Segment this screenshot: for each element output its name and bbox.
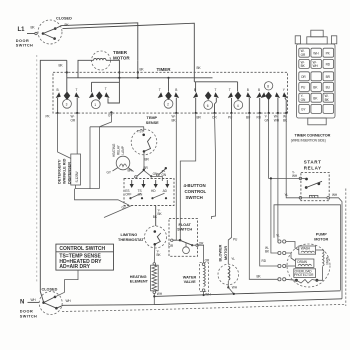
limiting thermostat bbox=[118, 226, 167, 248]
dispenser solenoid bbox=[58, 154, 81, 185]
wire Y-GN long drop to start relay bbox=[269, 113, 300, 178]
wire W-BK long drop to start relay coil bbox=[285, 113, 301, 198]
svg-text:AD=AIR DRY: AD=AIR DRY bbox=[59, 264, 90, 270]
svg-text:CONTROL SWITCH: CONTROL SWITCH bbox=[59, 246, 105, 252]
svg-text:WH: WH bbox=[313, 52, 319, 56]
svg-text:OR: OR bbox=[169, 244, 174, 248]
svg-text:WRINKLE RID: WRINKLE RID bbox=[63, 158, 67, 184]
timer connector shell bbox=[295, 30, 337, 125]
svg-text:(WIRE INSERTION SIDE): (WIRE INSERTION SIDE) bbox=[291, 139, 326, 143]
svg-text:T: T bbox=[159, 88, 161, 92]
wire PK output to dispenser bbox=[58, 113, 71, 159]
svg-text:SWITCH: SWITCH bbox=[186, 195, 203, 200]
cabinet border (dashed, left) bbox=[36, 55, 38, 283]
timer output wire color labels bbox=[46, 114, 289, 123]
svg-text:HEATING: HEATING bbox=[112, 143, 116, 157]
timer connector caption bbox=[291, 134, 331, 143]
svg-text:TIMER CONNECTOR: TIMER CONNECTOR bbox=[295, 134, 331, 138]
control lever contacts above 4-button switch bbox=[135, 166, 167, 178]
pump terminals bbox=[278, 240, 286, 281]
svg-text:WH: WH bbox=[332, 193, 338, 197]
svg-text:BLOWER: BLOWER bbox=[218, 244, 222, 261]
svg-text:4-BUTTON: 4-BUTTON bbox=[184, 183, 206, 188]
wire door switch to timer motor drop bbox=[55, 23, 138, 61]
svg-text:WASH: WASH bbox=[301, 247, 311, 251]
svg-text:OFF: OFF bbox=[125, 193, 131, 197]
cabinet border (dashed, right) bbox=[345, 189, 347, 307]
neutral bottom line (WH) bbox=[56, 299, 342, 308]
svg-text:B: B bbox=[247, 88, 249, 92]
pump overload protector bbox=[286, 269, 319, 283]
svg-text:B: B bbox=[57, 88, 59, 92]
timer contact 1 (circled 3) bbox=[56, 88, 80, 113]
timer contact 3 (circled 2) bbox=[158, 78, 180, 113]
timer contact 2 (circled 1) bbox=[89, 78, 120, 109]
wire start relay to right rail (WH return) bbox=[330, 193, 343, 299]
timer contact 5 (circled 4) bbox=[228, 82, 251, 113]
svg-text:OR: OR bbox=[301, 75, 306, 79]
pump motor bbox=[287, 233, 330, 287]
cabinet border (dashed, bottom) bbox=[62, 304, 346, 311]
svg-text:RELAY: RELAY bbox=[304, 165, 322, 170]
svg-text:T: T bbox=[215, 88, 217, 92]
timer contact 4 (circled 6) bbox=[193, 82, 238, 113]
svg-text:DOOR: DOOR bbox=[16, 39, 29, 43]
svg-text:ELEMENT: ELEMENT bbox=[130, 280, 149, 284]
4-button switch contacts bbox=[129, 193, 167, 199]
svg-text:YL: YL bbox=[276, 234, 280, 238]
svg-text:TEMP: TEMP bbox=[147, 116, 158, 120]
svg-text:LIMITING: LIMITING bbox=[121, 233, 138, 237]
svg-text:MOTOR: MOTOR bbox=[113, 55, 130, 60]
control switch legend box bbox=[56, 244, 114, 270]
timer motor M bbox=[92, 50, 131, 70]
timer contact 6 (circled 8) bbox=[256, 82, 287, 113]
svg-text:DISPENSER: DISPENSER bbox=[67, 162, 71, 184]
svg-text:VALVE: VALVE bbox=[184, 280, 197, 284]
wire GY output to temp sense bbox=[90, 112, 144, 131]
svg-text:T: T bbox=[229, 88, 231, 92]
svg-text:SWITCH: SWITCH bbox=[16, 44, 33, 48]
timer output junction dots bbox=[57, 111, 288, 114]
wire timer motor leads bbox=[78, 60, 145, 78]
timer connector pin labels bbox=[301, 49, 331, 111]
pump drain winding bbox=[286, 253, 314, 267]
svg-text:OR: OR bbox=[301, 53, 306, 57]
svg-text:YL: YL bbox=[285, 193, 289, 197]
svg-text:GN: GN bbox=[265, 118, 270, 122]
svg-text:TIMER: TIMER bbox=[157, 67, 172, 72]
wire 4-button left exit bbox=[104, 206, 132, 218]
svg-text:GN: GN bbox=[162, 173, 167, 177]
svg-text:CLOSED: CLOSED bbox=[42, 288, 58, 292]
svg-text:PROTECTOR: PROTECTOR bbox=[294, 273, 314, 277]
svg-text:MAIN: MAIN bbox=[326, 256, 330, 264]
svg-text:DETERGENT/: DETERGENT/ bbox=[58, 159, 62, 184]
svg-text:LAMP: LAMP bbox=[121, 146, 125, 154]
wire dispenser bottom links bbox=[75, 127, 130, 205]
wire W-BK long drop to float switch bbox=[173, 113, 176, 240]
svg-text:T: T bbox=[105, 87, 107, 91]
svg-text:DOOR: DOOR bbox=[20, 310, 33, 314]
svg-text:WH: WH bbox=[31, 298, 37, 302]
svg-text:WH: WH bbox=[313, 64, 319, 68]
svg-text:T'ST: T'ST bbox=[137, 130, 143, 134]
svg-text:MOTOR: MOTOR bbox=[314, 238, 328, 242]
svg-text:TIMER: TIMER bbox=[113, 50, 128, 55]
svg-text:FLOAT: FLOAT bbox=[179, 223, 192, 227]
wire BU long drop to pump row4 bbox=[249, 113, 278, 279]
svg-text:OR: OR bbox=[205, 259, 210, 263]
wire W-OR output to dispenser bbox=[76, 113, 78, 154]
wire OR long drop to water valve bbox=[211, 113, 215, 219]
wire rail to contact 1 bbox=[66, 60, 68, 92]
svg-text:THERMOSTAT: THERMOSTAT bbox=[118, 238, 144, 242]
temp sense thermostat bbox=[131, 116, 159, 155]
wire temp sense to control contacts bbox=[144, 153, 162, 181]
door switch (L1, top) bbox=[16, 17, 72, 48]
svg-text:S-120W: S-120W bbox=[75, 171, 79, 182]
float switch bbox=[169, 219, 205, 257]
svg-text:START: START bbox=[304, 160, 322, 165]
wire W-WH long drop to pump row1 bbox=[276, 113, 280, 242]
4-button control switch box bbox=[124, 179, 207, 206]
timer feed bus bbox=[67, 77, 213, 79]
svg-text:L1: L1 bbox=[18, 27, 26, 33]
heating element bbox=[130, 263, 163, 305]
wire 4-button to limiting thermostat bbox=[153, 206, 163, 227]
water valve bbox=[183, 245, 211, 296]
timer connector cells bbox=[299, 48, 334, 113]
wire N door switch upper exit bbox=[55, 270, 78, 297]
svg-text:B: B bbox=[194, 88, 196, 92]
svg-text:B: B bbox=[258, 88, 260, 92]
svg-text:CONTROL: CONTROL bbox=[185, 189, 207, 194]
svg-text:WH: WH bbox=[232, 286, 238, 290]
pump wash winding bbox=[286, 242, 316, 255]
wire thermostat to heating element bbox=[154, 246, 161, 263]
svg-text:OR: OR bbox=[199, 241, 204, 245]
pump main winding bbox=[316, 250, 330, 280]
neutral left rail bbox=[40, 60, 67, 302]
svg-text:MOTOR: MOTOR bbox=[224, 246, 228, 260]
svg-text:SWITCH: SWITCH bbox=[177, 228, 192, 232]
bottom component return line bbox=[154, 291, 340, 297]
svg-text:WH: WH bbox=[157, 292, 163, 296]
svg-text:WH: WH bbox=[292, 174, 298, 178]
svg-text:YL: YL bbox=[231, 257, 235, 261]
heater relay lamp bbox=[107, 143, 134, 174]
4-button switch labels bbox=[125, 189, 167, 197]
blower motor bbox=[218, 244, 239, 294]
door switch (N, bottom) bbox=[20, 288, 62, 319]
svg-text:B: B bbox=[175, 88, 177, 92]
svg-text:DRAIN: DRAIN bbox=[297, 260, 307, 264]
4-button switch plungers bbox=[130, 180, 170, 188]
pump motor enclosure bbox=[274, 205, 341, 290]
svg-text:SWITCH: SWITCH bbox=[20, 314, 37, 318]
svg-text:OR: OR bbox=[71, 118, 76, 122]
svg-text:CLOSED: CLOSED bbox=[56, 17, 72, 21]
svg-text:WH: WH bbox=[274, 118, 280, 122]
svg-text:GN: GN bbox=[301, 98, 306, 102]
wire RD long drop to pump row3 bbox=[260, 113, 279, 266]
wire door switch to timer contact 6 feed bbox=[63, 23, 202, 82]
svg-text:N: N bbox=[20, 299, 24, 305]
svg-text:HEATING: HEATING bbox=[130, 275, 147, 279]
svg-text:WH: WH bbox=[66, 299, 72, 303]
timer box (dashed) bbox=[53, 67, 288, 113]
node L1 bbox=[18, 26, 36, 34]
svg-text:PUMP: PUMP bbox=[316, 233, 327, 237]
node N bbox=[20, 298, 39, 305]
start relay bbox=[292, 160, 330, 201]
svg-text:SENSE: SENSE bbox=[146, 121, 159, 125]
svg-text:WATER: WATER bbox=[183, 275, 197, 279]
svg-text:RELAY: RELAY bbox=[116, 144, 120, 155]
svg-text:T: T bbox=[76, 88, 78, 92]
wire L1 lead bbox=[27, 32, 37, 34]
wire PU long drop to blower bbox=[228, 113, 238, 264]
wire to pump row2 bbox=[265, 177, 278, 253]
wire BR long drop bbox=[179, 113, 196, 241]
